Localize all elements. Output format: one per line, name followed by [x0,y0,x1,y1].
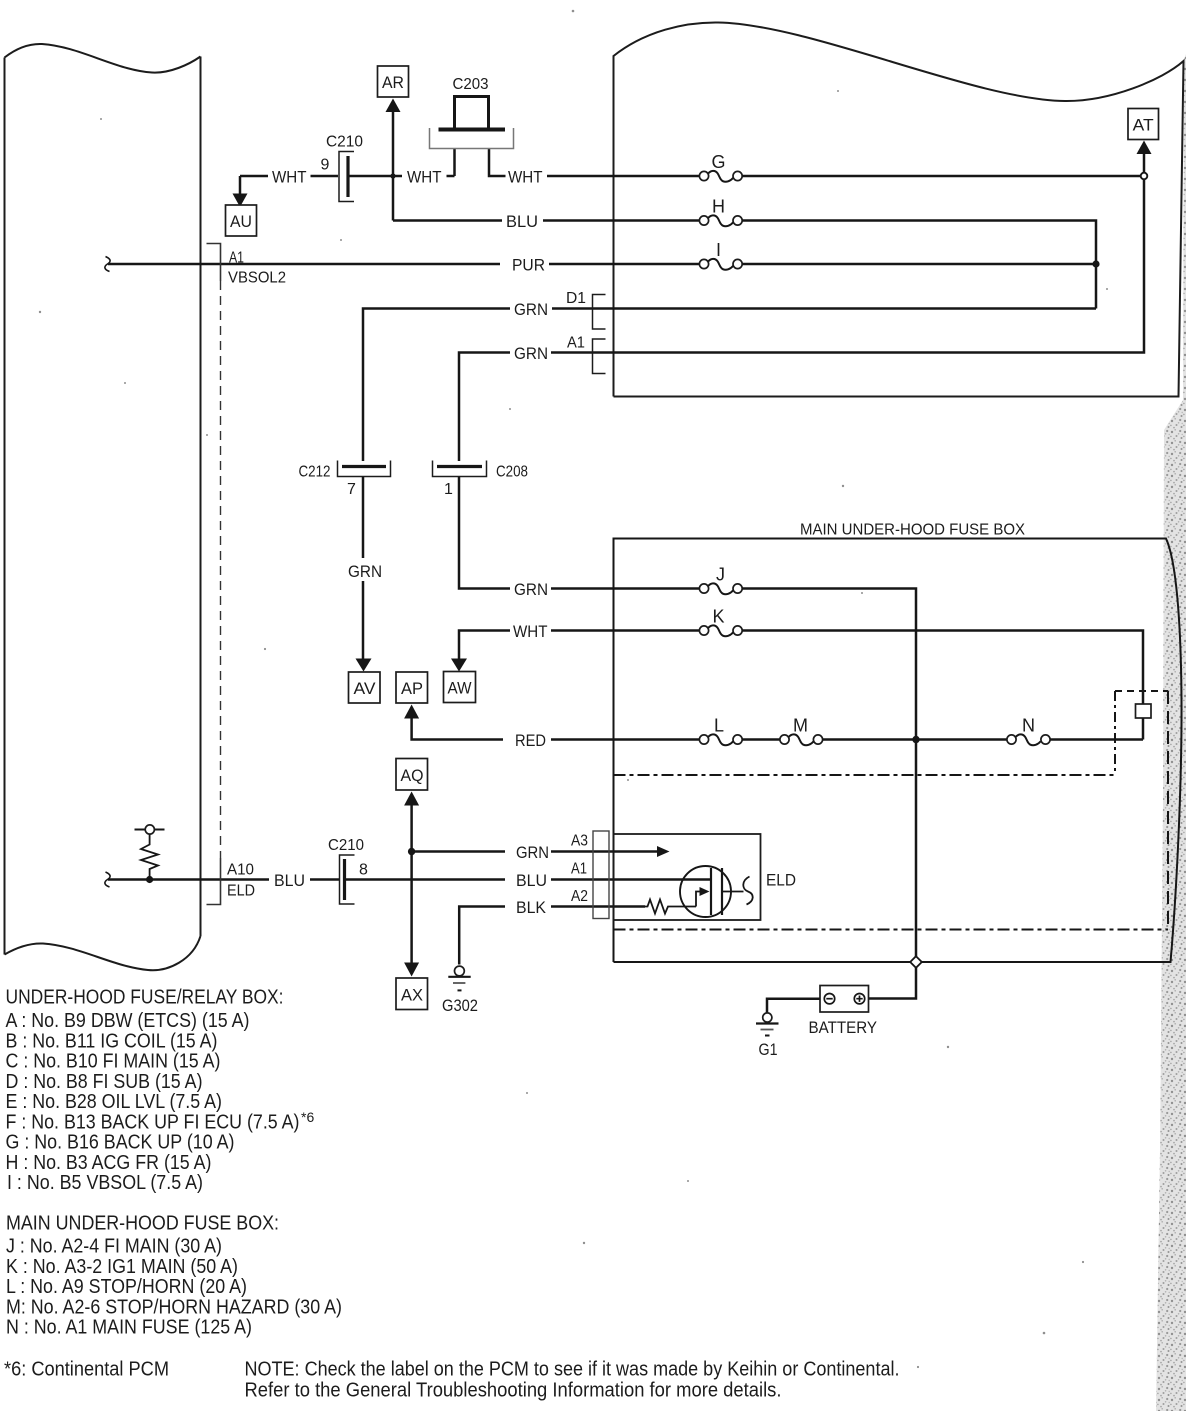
ELD pin bracket [593,831,609,919]
fuse H [699,197,742,227]
svg-text:GRN: GRN [516,843,549,862]
wire PUR row with break [105,257,500,272]
wire L-M [742,738,781,741]
svg-text:Refer to the General Troublesh: Refer to the General Troubleshooting Inf… [245,1380,782,1402]
connector C208 pin 1 [433,461,529,499]
svg-text:D1: D1 [566,290,586,307]
svg-text:BLU: BLU [506,212,538,231]
svg-text:*6: *6 [301,1109,314,1125]
fuse M [780,716,823,746]
svg-text:C212: C212 [299,464,331,481]
gate arrow inside transistor [696,887,710,907]
svg-text:M: M [793,716,808,736]
fuse G [699,152,742,182]
node WHT / AR branch [390,173,395,178]
svg-text:UNDER-HOOD FUSE/RELAY BOX:: UNDER-HOOD FUSE/RELAY BOX: [6,987,284,1009]
svg-text:PUR: PUR [512,256,545,275]
fuse J [699,565,742,595]
dashed link vertical right [1167,691,1169,926]
svg-text:AP: AP [401,679,423,698]
svg-text:VBSOL2: VBSOL2 [228,270,286,287]
pin label A10 / net ELD [227,862,255,900]
svg-text:C203: C203 [453,76,489,93]
PCM connector bracket [207,244,221,905]
svg-text:AV: AV [354,679,377,698]
connector AX with arrow [396,963,428,1010]
svg-text:GRN: GRN [514,300,548,319]
resistor pull-up with switch contact [135,825,165,883]
ground G1 [756,1013,779,1059]
wire GRN J row [459,477,510,589]
wire G to AT node [742,175,1141,178]
svg-text:A10: A10 [227,862,254,879]
wire BLK row [459,907,505,965]
svg-text:A1: A1 [567,335,585,352]
svg-text:AU: AU [230,212,252,231]
connector A1 bracket [567,335,606,374]
node diamond at box exit [910,956,922,968]
wire GRN down to AV [362,477,365,559]
wire BLU across [346,878,505,881]
wire BLU row [393,219,502,222]
under-hood fuse/relay box (top right, torn top) [614,22,1184,396]
svg-text:WHT: WHT [272,168,307,187]
scan shadow band right edge [1156,54,1186,1411]
dash-dot boundary lower [614,929,1169,931]
wire WHT row to AU [233,176,269,207]
wire WHT into fuse box [547,175,700,178]
svg-text:G1: G1 [759,1040,778,1059]
svg-text:GRN: GRN [348,562,382,581]
wire K loop to main fuse connector [742,631,1143,705]
svg-text:J: J [716,565,725,585]
svg-text:K : No. A3-2 IG1 MAIN (50 A): K : No. A3-2 IG1 MAIN (50 A) [6,1256,238,1278]
dash-dot boundary upper [614,774,1116,776]
svg-text:K: K [712,607,724,627]
svg-text:H : No. B3 ACG FR (15 A): H : No. B3 ACG FR (15 A) [6,1152,212,1174]
connector C210 pin 8 [328,837,368,904]
svg-text:NOTE: Check the label on the P: NOTE: Check the label on the PCM to see … [245,1359,900,1381]
svg-text:BATTERY: BATTERY [809,1018,878,1037]
wire ELD row left with break [105,872,269,887]
pin label A1 / net VBSOL2 [228,250,286,287]
connector AQ with arrow [396,759,428,806]
wire GRN row [412,850,505,853]
wire N to connector [1050,738,1143,741]
svg-text:GRN: GRN [514,580,548,599]
wire H loop right and down [742,221,1096,309]
connector AT with arrow [1128,109,1159,173]
connector C212 pin 7 [299,461,391,499]
wire WHT to C210 [311,175,339,178]
node I/H junction [1092,260,1099,267]
wire M to N [823,738,1008,741]
svg-text:1: 1 [444,481,453,498]
connector AR with arrow [378,66,409,221]
svg-text:ELD: ELD [766,871,796,890]
svg-text:L : No. A9 STOP/HORN (20 A): L : No. A9 STOP/HORN (20 A) [6,1276,247,1298]
svg-text:7: 7 [347,481,356,498]
svg-text:A1: A1 [229,250,244,267]
svg-text:WHT: WHT [508,168,543,187]
svg-text:9: 9 [321,157,330,174]
resistor in ELD A2 leg [645,900,696,914]
wire battery to G1 [767,999,820,1013]
fuse I [699,240,742,270]
main under-hood fuse box border [614,539,1182,963]
svg-text:WHT: WHT [407,168,442,187]
svg-text:MAIN UNDER-HOOD FUSE BOX:: MAIN UNDER-HOOD FUSE BOX: [6,1212,279,1234]
svg-text:I: I [716,240,721,260]
svg-text:M: No. A2-6 STOP/HORN HAZARD (: M: No. A2-6 STOP/HORN HAZARD (30 A) [6,1296,342,1318]
svg-text:AR: AR [382,73,404,92]
svg-text:I : No. B5 VBSOL (7.5 A): I : No. B5 VBSOL (7.5 A) [7,1172,203,1194]
svg-text:N : No. A1 MAIN FUSE (125 A): N : No. A1 MAIN FUSE (125 A) [6,1317,252,1339]
dash-dot boundary vertical [1114,691,1116,775]
svg-text:*6: Continental PCM: *6: Continental PCM [4,1359,169,1381]
svg-text:AT: AT [1133,116,1154,135]
svg-text:D : No. B8 FI SUB (15 A): D : No. B8 FI SUB (15 A) [6,1071,203,1093]
svg-text:J : No. A2-4 FI MAIN (30 A): J : No. A2-4 FI MAIN (30 A) [6,1236,222,1258]
svg-text:8: 8 [359,862,368,879]
svg-text:N: N [1022,716,1035,736]
connector AV [349,672,381,703]
wire WHT C210 to C203 [350,175,403,178]
node ring at AT branch [1141,173,1148,180]
fuse K [699,607,742,637]
svg-text:C : No. B10 FI MAIN (15 A): C : No. B10 FI MAIN (15 A) [6,1051,221,1073]
dashed link top [1115,690,1168,692]
svg-text:C210: C210 [326,134,363,151]
wire to battery [869,968,917,999]
svg-text:G302: G302 [442,996,478,1015]
svg-text:H: H [712,197,725,217]
connector AP [396,672,428,703]
ELD transistor circle [680,866,731,917]
svg-text:GRN: GRN [514,344,548,363]
node battery branch junction [912,736,919,743]
svg-text:C210: C210 [328,837,364,854]
svg-text:A1: A1 [571,861,587,878]
wire BLU to C210 [310,878,339,881]
ELD unit box [614,834,761,920]
svg-text:A2: A2 [571,888,588,905]
fuse L [699,716,742,746]
connector C210 pin 9 [321,134,364,202]
wire GRN A1 row [459,353,510,462]
transistor bars [711,868,722,915]
node GRN tap [408,848,415,855]
svg-text:L: L [714,716,724,736]
svg-text:AW: AW [448,679,472,698]
connector D1 bracket [566,290,606,329]
svg-text:A : No. B9 DBW (ETCS) (15 A): A : No. B9 DBW (ETCS) (15 A) [6,1010,250,1032]
wire loop back left (GRN D1 row) [552,307,1096,310]
svg-text:E : No. B28 OIL LVL (7.5 A): E : No. B28 OIL LVL (7.5 A) [6,1091,223,1113]
svg-text:G: G [711,152,725,172]
svg-text:AX: AX [401,986,423,1005]
wire AQ vertical to AX [410,804,413,964]
svg-text:BLU: BLU [274,871,305,890]
main fuse connector square [1136,704,1152,718]
svg-text:BLK: BLK [516,898,547,917]
ground G302 [442,966,478,1015]
PCM component box (left, torn edges) [5,44,201,970]
svg-text:AQ: AQ [401,766,424,785]
wire I to junction [742,263,1094,266]
svg-text:BLU: BLU [516,871,547,890]
wire WHT K row to AW arrow [459,631,510,660]
svg-text:WHT: WHT [513,622,548,641]
wire RED row from AP [404,705,419,719]
svg-text:B : No. B11 IG COIL (15 A): B : No. B11 IG COIL (15 A) [6,1030,218,1052]
svg-text:A3: A3 [571,833,588,850]
connector AW [444,672,476,703]
battery [809,986,878,1038]
svg-text:F : No. B13 BACK UP FI ECU (7.: F : No. B13 BACK UP FI ECU (7.5 A) [6,1111,300,1133]
connector C203 [430,76,514,176]
drain lead and flex symbol [722,877,753,905]
ELD internal arrow A3 [614,846,670,857]
svg-text:G : No. B16 BACK UP (10 A): G : No. B16 BACK UP (10 A) [6,1132,235,1154]
connector AU [226,205,257,236]
svg-text:MAIN UNDER-HOOD FUSE BOX: MAIN UNDER-HOOD FUSE BOX [800,522,1025,539]
svg-text:ELD: ELD [227,883,255,900]
wire J to battery branch [742,589,916,957]
svg-text:C208: C208 [496,464,528,481]
svg-text:RED: RED [515,731,546,750]
fuse N [1007,716,1050,746]
